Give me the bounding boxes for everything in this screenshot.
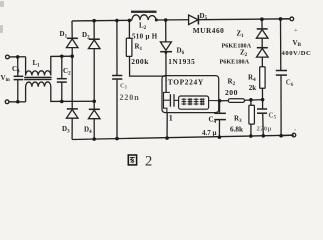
svg-text:220μ: 220μ (257, 125, 272, 132)
svg-text:220n: 220n (120, 93, 140, 102)
svg-text:1: 1 (169, 114, 173, 123)
svg-text:6.8k: 6.8k (230, 125, 243, 133)
svg-text:200: 200 (225, 88, 238, 97)
svg-text:P6KE180A: P6KE180A (220, 59, 250, 66)
svg-text:2k: 2k (249, 84, 256, 92)
svg-text:P6KE180A: P6KE180A (222, 42, 252, 49)
svg-text:200k: 200k (131, 57, 149, 66)
svg-text:TOP224Y: TOP224Y (168, 77, 204, 86)
svg-text:1N1935: 1N1935 (168, 57, 195, 66)
svg-text:400V/DC: 400V/DC (282, 50, 312, 57)
svg-text:2: 2 (145, 153, 152, 169)
svg-text:MUR460: MUR460 (193, 26, 225, 35)
svg-text:4.7 μ: 4.7 μ (202, 129, 217, 137)
svg-text:510 μ H: 510 μ H (132, 33, 158, 41)
svg-text:+: + (294, 27, 298, 34)
